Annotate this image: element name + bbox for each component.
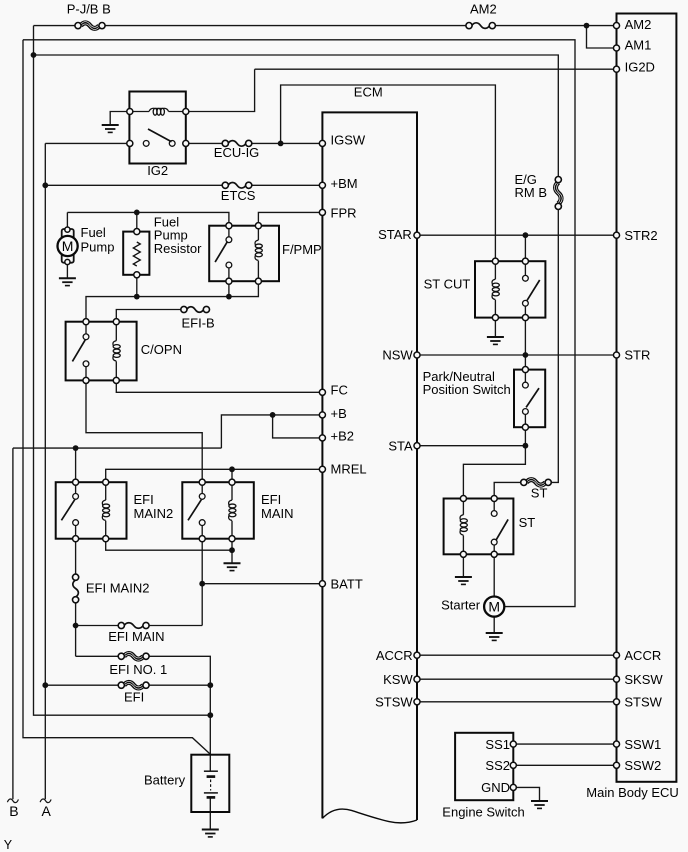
svg-text:GND: GND	[481, 780, 510, 795]
svg-text:EFI: EFI	[134, 492, 154, 507]
svg-text:B: B	[9, 803, 18, 819]
svg-text:M: M	[488, 599, 500, 615]
svg-text:ETCS: ETCS	[221, 188, 256, 203]
svg-text:BATT: BATT	[331, 577, 363, 592]
svg-text:ECM: ECM	[354, 84, 383, 99]
svg-text:EFI MAIN: EFI MAIN	[108, 629, 164, 644]
svg-text:STSW: STSW	[375, 695, 413, 710]
svg-text:Y: Y	[4, 838, 13, 852]
svg-text:P-J/B B: P-J/B B	[67, 1, 111, 16]
svg-text:ST: ST	[519, 515, 536, 530]
svg-text:Battery: Battery	[144, 772, 186, 787]
svg-text:AM2: AM2	[470, 1, 497, 16]
svg-text:SS2: SS2	[485, 758, 510, 773]
svg-text:Position Switch: Position Switch	[423, 382, 511, 397]
svg-text:KSW: KSW	[383, 672, 413, 687]
svg-text:IG2: IG2	[147, 163, 168, 178]
svg-text:SSW1: SSW1	[624, 737, 661, 752]
svg-text:RM B: RM B	[515, 185, 548, 200]
svg-text:Starter: Starter	[441, 598, 481, 613]
svg-text:Pump: Pump	[81, 240, 115, 255]
svg-text:Resistor: Resistor	[154, 241, 202, 256]
svg-text:MREL: MREL	[331, 462, 367, 477]
svg-text:IG2D: IG2D	[625, 60, 655, 75]
svg-text:EFI: EFI	[124, 689, 144, 704]
svg-text:MAIN2: MAIN2	[134, 506, 174, 521]
svg-text:A: A	[42, 803, 52, 819]
svg-text:NSW: NSW	[382, 348, 413, 363]
svg-text:ST: ST	[531, 486, 548, 501]
svg-text:+B: +B	[331, 406, 347, 421]
svg-text:+BM: +BM	[331, 176, 358, 191]
svg-text:M: M	[62, 238, 74, 254]
svg-text:EFI-B: EFI-B	[182, 315, 215, 330]
svg-text:STSW: STSW	[624, 695, 662, 710]
svg-text:IGSW: IGSW	[331, 133, 366, 148]
svg-text:STR2: STR2	[624, 228, 657, 243]
svg-text:SS1: SS1	[485, 737, 510, 752]
svg-text:ACCR: ACCR	[624, 648, 661, 663]
svg-text:ST CUT: ST CUT	[424, 276, 471, 291]
svg-text:Main Body ECU: Main Body ECU	[586, 785, 678, 800]
svg-text:MAIN: MAIN	[261, 506, 294, 521]
svg-text:STR: STR	[624, 348, 650, 363]
svg-text:ACCR: ACCR	[376, 648, 413, 663]
svg-text:EFI: EFI	[261, 492, 281, 507]
svg-text:Engine Switch: Engine Switch	[442, 805, 524, 820]
svg-text:STAR: STAR	[378, 227, 412, 242]
svg-text:C/OPN: C/OPN	[141, 342, 182, 357]
svg-text:EFI NO. 1: EFI NO. 1	[109, 662, 167, 677]
svg-text:ECU-IG: ECU-IG	[214, 145, 259, 160]
svg-text:F/PMP: F/PMP	[282, 242, 322, 257]
svg-text:+B2: +B2	[331, 429, 355, 444]
svg-text:STA: STA	[388, 438, 413, 453]
svg-text:AM1: AM1	[625, 38, 652, 53]
svg-text:FPR: FPR	[331, 206, 357, 221]
svg-text:SKSW: SKSW	[624, 672, 663, 687]
svg-text:FC: FC	[331, 383, 348, 398]
svg-text:AM2: AM2	[625, 17, 652, 32]
svg-text:EFI MAIN2: EFI MAIN2	[86, 581, 150, 596]
svg-text:Fuel: Fuel	[81, 225, 106, 240]
svg-text:SSW2: SSW2	[624, 758, 661, 773]
